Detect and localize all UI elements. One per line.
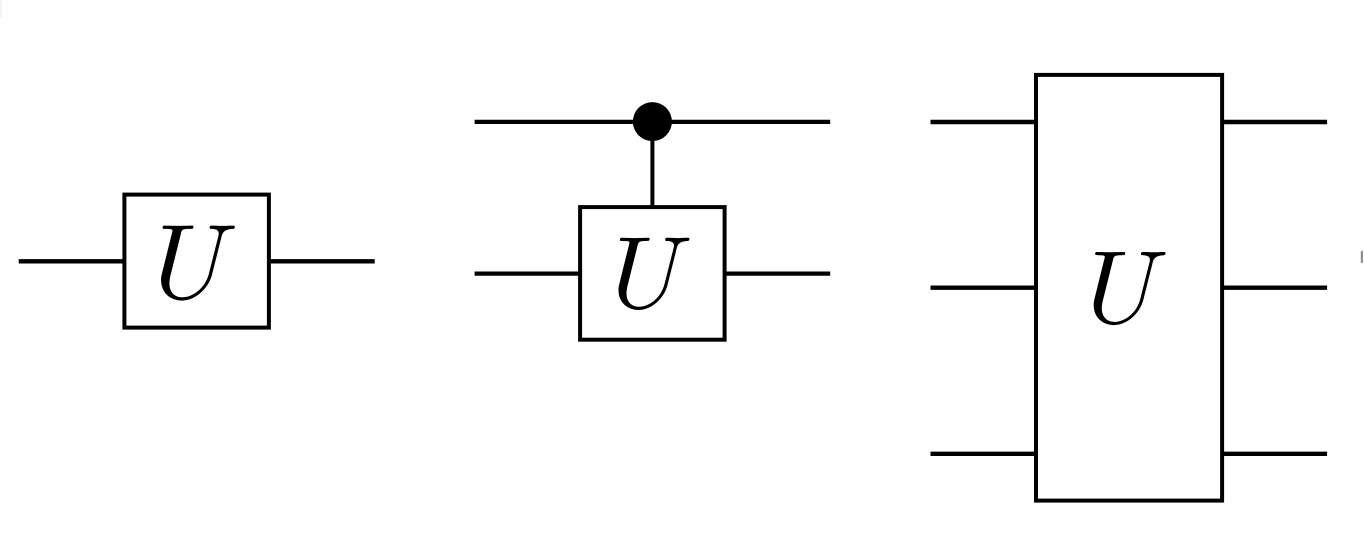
gate U1 box (single-qubit U)	[124, 195, 269, 328]
label U (gate U2)	[619, 238, 690, 310]
label U (gate U1)	[161, 226, 235, 301]
wire q5 (multi-qubit gate, bottom)	[931, 452, 1328, 456]
control dot node	[633, 102, 672, 141]
wire q2 target line (controlled-U)	[475, 271, 831, 275]
wire control-to-gate vertical link	[650, 122, 654, 209]
label U (gate U3)	[1094, 252, 1166, 325]
wire q4 (multi-qubit gate, middle)	[931, 286, 1328, 290]
gate U3 box (three-qubit U)	[1036, 75, 1222, 501]
wire q0 (single-qubit gate)	[19, 259, 375, 263]
wire q1 control line (controlled-U)	[475, 120, 831, 124]
wire q3 (multi-qubit gate, top)	[931, 120, 1328, 124]
gate U2 box (controlled-U target)	[580, 207, 725, 340]
